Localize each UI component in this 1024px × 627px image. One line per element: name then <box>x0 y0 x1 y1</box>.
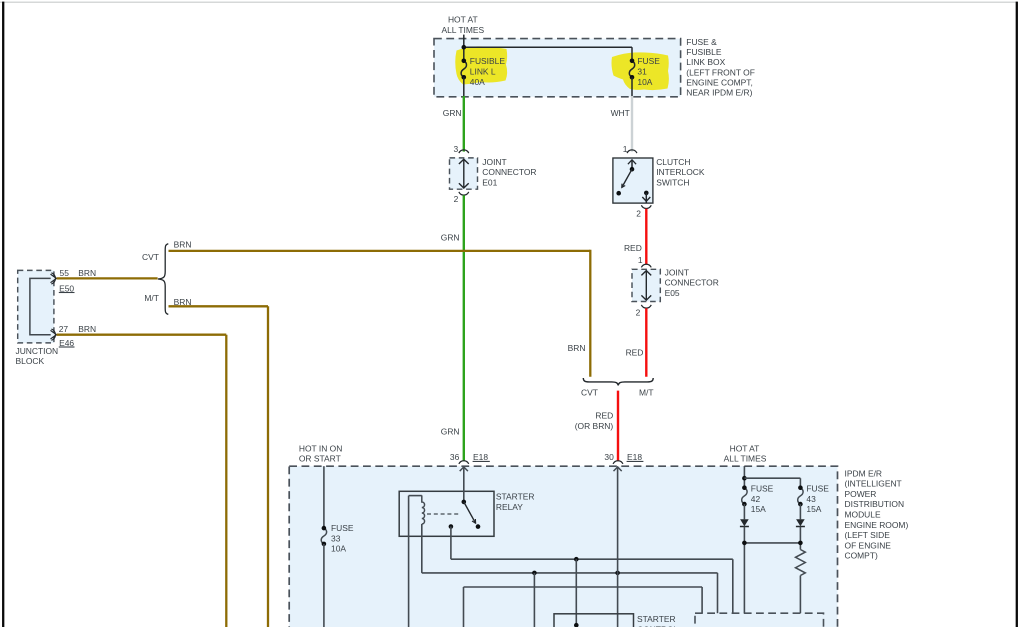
svg-text:SWITCH: SWITCH <box>656 177 689 187</box>
svg-text:E01: E01 <box>482 177 497 187</box>
svg-text:FUSIBLE: FUSIBLE <box>470 56 506 66</box>
svg-text:JUNCTION: JUNCTION <box>16 346 59 356</box>
svg-text:ALL TIMES: ALL TIMES <box>724 453 767 463</box>
svg-text:33: 33 <box>331 533 341 543</box>
svg-text:INTERLOCK: INTERLOCK <box>656 167 705 177</box>
svg-text:BRN: BRN <box>78 268 96 278</box>
svg-text:43: 43 <box>806 494 816 504</box>
svg-text:BRN: BRN <box>174 239 192 249</box>
svg-text:31: 31 <box>637 66 647 76</box>
svg-text:JOINT: JOINT <box>482 157 506 167</box>
svg-text:10A: 10A <box>331 544 346 554</box>
svg-text:GRN: GRN <box>443 108 462 118</box>
svg-text:FUSE: FUSE <box>331 523 354 533</box>
svg-text:GRN: GRN <box>441 427 460 437</box>
svg-text:GRN: GRN <box>441 233 460 243</box>
svg-text:(INTELLIGENT: (INTELLIGENT <box>845 479 902 489</box>
svg-text:(OR BRN): (OR BRN) <box>575 421 614 431</box>
svg-text:M/T: M/T <box>144 293 159 303</box>
svg-text:27: 27 <box>59 324 69 334</box>
svg-text:NEAR IPDM E/R): NEAR IPDM E/R) <box>686 88 752 98</box>
svg-text:BRN: BRN <box>78 324 96 334</box>
svg-text:42: 42 <box>751 494 761 504</box>
svg-text:HOT IN ON: HOT IN ON <box>299 443 342 453</box>
svg-text:36: 36 <box>450 452 460 462</box>
svg-text:BRN: BRN <box>174 297 192 307</box>
svg-text:M/T: M/T <box>639 388 654 398</box>
svg-text:CVT: CVT <box>581 388 598 398</box>
svg-text:55: 55 <box>60 268 70 278</box>
svg-text:E05: E05 <box>665 288 680 298</box>
svg-text:MODULE: MODULE <box>845 510 881 520</box>
svg-text:CONNECTOR: CONNECTOR <box>482 167 536 177</box>
svg-text:IPDM E/R: IPDM E/R <box>845 468 883 478</box>
svg-text:3: 3 <box>453 144 458 154</box>
svg-text:(LEFT SIDE: (LEFT SIDE <box>845 530 891 540</box>
svg-text:LINK BOX: LINK BOX <box>686 57 725 67</box>
svg-text:OR START: OR START <box>299 453 341 463</box>
svg-text:RED: RED <box>624 243 642 253</box>
svg-text:BRN: BRN <box>568 343 586 353</box>
svg-text:WHT: WHT <box>611 108 630 118</box>
svg-text:FUSIBLE: FUSIBLE <box>686 47 722 57</box>
svg-text:10A: 10A <box>637 77 652 87</box>
svg-text:2: 2 <box>454 194 459 204</box>
svg-text:RED: RED <box>595 410 613 420</box>
svg-text:FUSE: FUSE <box>806 484 829 494</box>
svg-text:(LEFT FRONT OF: (LEFT FRONT OF <box>686 67 755 77</box>
svg-text:15A: 15A <box>806 504 821 514</box>
svg-text:OF ENGINE: OF ENGINE <box>845 540 892 550</box>
svg-text:FUSE &: FUSE & <box>686 37 717 47</box>
svg-text:CLUTCH: CLUTCH <box>656 157 690 167</box>
svg-text:HOT AT: HOT AT <box>448 15 478 25</box>
svg-text:LINK L: LINK L <box>470 66 496 76</box>
svg-text:CONNECTOR: CONNECTOR <box>665 278 719 288</box>
svg-text:BLOCK: BLOCK <box>16 356 45 366</box>
svg-text:40A: 40A <box>470 77 485 87</box>
svg-text:E18: E18 <box>473 452 488 462</box>
svg-text:ENGINE ROOM): ENGINE ROOM) <box>845 520 909 530</box>
svg-text:RED: RED <box>626 348 644 358</box>
svg-text:RELAY: RELAY <box>496 502 523 512</box>
svg-text:2: 2 <box>636 209 641 219</box>
svg-text:POWER: POWER <box>845 489 877 499</box>
svg-text:FUSE: FUSE <box>751 484 774 494</box>
svg-text:FUSE: FUSE <box>637 56 660 66</box>
svg-text:CVT: CVT <box>142 252 159 262</box>
svg-text:ALL TIMES: ALL TIMES <box>441 25 484 35</box>
svg-text:30: 30 <box>604 452 614 462</box>
svg-text:2: 2 <box>636 307 641 317</box>
svg-text:E18: E18 <box>627 452 642 462</box>
svg-text:COMPT): COMPT) <box>845 551 878 561</box>
svg-text:STARTER: STARTER <box>637 614 676 624</box>
svg-text:15A: 15A <box>751 504 766 514</box>
svg-text:STARTER: STARTER <box>496 492 535 502</box>
svg-text:1: 1 <box>638 255 643 265</box>
svg-text:JOINT: JOINT <box>665 267 689 277</box>
svg-text:HOT AT: HOT AT <box>730 443 760 453</box>
svg-text:ENGINE COMPT,: ENGINE COMPT, <box>686 77 753 87</box>
svg-text:DISTRIBUTION: DISTRIBUTION <box>845 499 905 509</box>
